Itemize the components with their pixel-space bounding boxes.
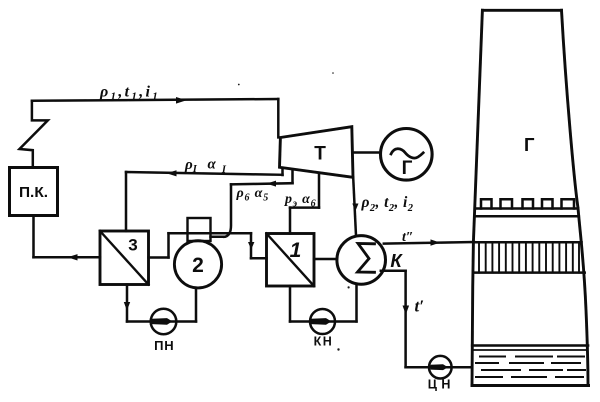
svg-text:ρ1,t1,i1: ρ1,t1,i1 [99,84,160,103]
svg-text:2: 2 [192,254,204,277]
svg-text:Т: Т [314,144,326,165]
svg-text:Г: Г [524,134,535,155]
svg-text:t″: t″ [402,230,414,245]
svg-text:Г: Г [402,158,413,179]
svg-text:К: К [390,250,403,271]
svg-text:П.К.: П.К. [19,184,48,201]
svg-text:ρ2, t2, i2: ρ2, t2, i2 [361,194,414,214]
svg-text:3: 3 [128,236,137,255]
svg-text:t′: t′ [415,297,425,316]
svg-text:1: 1 [290,239,302,262]
svg-text:ЦН: ЦН [428,378,455,392]
svg-text:ПН: ПН [154,338,174,353]
svg-text:КН: КН [314,335,334,349]
